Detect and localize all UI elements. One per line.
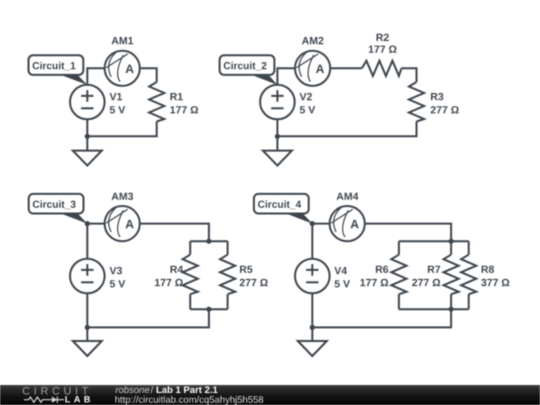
voltage source V1	[70, 85, 105, 120]
label R8 name	[482, 266, 494, 273]
footer bar	[0, 385, 540, 405]
wire node to V4 top	[311, 224, 313, 259]
wire R1 bottom to node	[87, 122, 156, 137]
ground circuit 4	[298, 341, 327, 356]
label R1 value	[170, 106, 198, 113]
label V3 value	[110, 280, 125, 287]
junction bottom rail	[206, 307, 211, 312]
resistor R2	[362, 61, 402, 76]
wire AM3 to parallel top	[87, 224, 209, 242]
resistor R6	[391, 255, 406, 295]
label R7 name	[428, 266, 440, 273]
wire bottom rail circuit 3	[190, 308, 227, 310]
label V3 name	[110, 267, 122, 274]
voltage source V2	[260, 85, 295, 120]
voltage source V4	[295, 259, 330, 294]
wire AM4 to parallel top	[312, 224, 451, 242]
junction top rail	[206, 239, 211, 244]
wire V1 top to AM1 to R1 top	[87, 68, 156, 84]
voltage source V3	[70, 259, 105, 294]
label V4 name	[334, 267, 347, 274]
wire V2 top to AM2 to R2	[277, 68, 362, 84]
wire V2 bottom to ground	[276, 119, 278, 150]
ammeter AM4	[330, 206, 365, 241]
resistor R7	[444, 255, 459, 295]
label R6 name	[376, 266, 388, 273]
label R3 value	[431, 106, 459, 113]
ammeter AM3	[105, 206, 140, 241]
footer separator	[151, 386, 154, 393]
wire top rail to R7	[450, 241, 452, 255]
wire V4 bottom to ground	[311, 293, 313, 341]
wire V3 bottom to ground	[86, 293, 88, 341]
junction bottom rail c4	[449, 307, 454, 312]
wire R5 to bottom rail	[227, 294, 229, 309]
label AM1 name	[112, 37, 134, 44]
junction top rail c4	[449, 239, 454, 244]
resistor R4	[183, 255, 198, 295]
label AM3 name	[112, 193, 134, 200]
logo diode	[52, 397, 57, 403]
junction flag-AM3-V3	[85, 221, 90, 226]
label R2 name	[377, 34, 389, 41]
label V2 value	[300, 106, 315, 113]
wire R7 to bottom rail	[450, 294, 452, 309]
resistor R1	[149, 82, 164, 122]
logo text CIRCUIT	[23, 387, 88, 395]
node flag Circuit_3	[29, 194, 88, 224]
wire R8 to bottom rail	[468, 294, 470, 309]
footer url	[115, 396, 263, 405]
resistor R8	[461, 255, 476, 295]
junction flag-AM4-V4	[310, 221, 315, 226]
node flag Circuit_1	[29, 55, 88, 85]
label R4 value	[155, 279, 183, 286]
wire parallel bottom to node	[87, 309, 209, 327]
logo text LAB	[65, 396, 90, 402]
node flag Circuit_4	[254, 194, 312, 224]
ammeter AM2	[295, 51, 330, 86]
wire R4 to bottom rail	[189, 294, 191, 309]
label V2 name	[300, 93, 312, 100]
label V4 value	[335, 280, 350, 287]
ground circuit 1	[73, 151, 102, 166]
wire R2 to R3 top	[401, 68, 416, 82]
wire top rail circuit 4	[399, 240, 469, 242]
logo wire with resistor	[24, 397, 64, 402]
label R2 value	[369, 46, 397, 53]
label R4 name	[171, 266, 184, 273]
label AM2 name	[302, 37, 324, 44]
label R3 name	[431, 93, 443, 100]
resistor R5	[220, 255, 235, 295]
wire R6 to bottom rail	[398, 294, 400, 309]
junction V3-ground	[85, 325, 90, 330]
wire top rail to R5	[227, 241, 229, 255]
label R5 value	[240, 279, 268, 286]
wire parallel bottom to node	[312, 309, 451, 327]
wire top rail to R6	[398, 241, 400, 255]
ground circuit 2	[263, 151, 292, 166]
junction V4-ground	[310, 325, 315, 330]
label AM4 name	[337, 193, 359, 200]
wire V1 bottom to ground	[86, 119, 88, 150]
ground circuit 3	[73, 341, 102, 356]
junction V2-R3-ground	[275, 134, 280, 139]
junction V1-R1-ground	[85, 134, 90, 139]
label R6 value	[360, 279, 388, 286]
wire node to V3 top	[86, 224, 88, 259]
wire top rail to R8	[468, 241, 470, 255]
label R8 value	[481, 279, 509, 286]
label V1 name	[110, 93, 123, 100]
wire top rail circuit 3	[190, 240, 227, 242]
footer author	[116, 386, 150, 393]
wire bottom rail circuit 4	[399, 308, 469, 310]
node flag Circuit_2	[220, 55, 278, 85]
label R5 name	[240, 266, 252, 273]
footer title	[157, 386, 218, 393]
wire top rail to R4	[189, 241, 191, 255]
label R1 name	[170, 93, 182, 100]
wire R3 bottom to node	[277, 122, 416, 137]
label V1 value	[110, 106, 125, 113]
label R7 value	[412, 279, 440, 286]
resistor R3	[409, 82, 424, 122]
ammeter AM1	[105, 51, 140, 86]
